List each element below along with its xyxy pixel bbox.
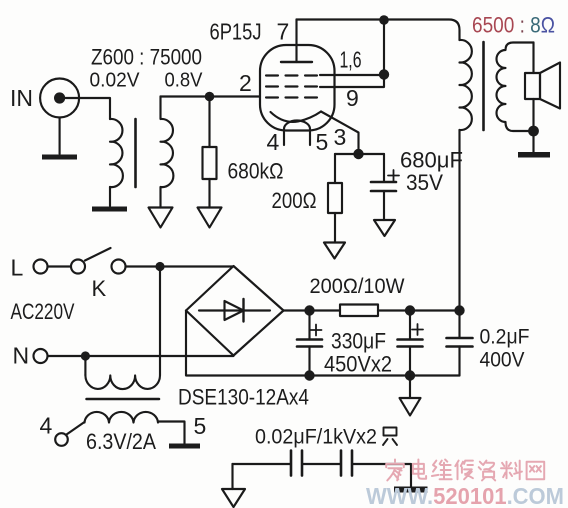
terminal L — [34, 260, 48, 274]
svg-text:AC220V: AC220V — [11, 299, 75, 324]
capacitor C1 680uF plates — [371, 182, 396, 191]
svg-text:680μF: 680μF — [400, 148, 463, 173]
resistor R2 200 body — [328, 183, 342, 213]
wire R2 to ground — [334, 213, 336, 243]
svg-text:5: 5 — [316, 129, 329, 155]
wire pin 9 to junction — [320, 79, 384, 87]
wire C3 to ground rail — [409, 347, 411, 376]
svg-text:0.8V: 0.8V — [165, 70, 204, 92]
bridge diode triangle — [225, 301, 244, 320]
svg-text:6500 : 8Ω: 6500 : 8Ω — [472, 13, 555, 38]
svg-text:WWW.520101.COM: WWW.520101.COM — [366, 483, 564, 508]
wire switch to bridge top — [126, 265, 234, 267]
svg-text:K: K — [92, 276, 107, 301]
tube cathode arc — [271, 112, 322, 122]
svg-text:4: 4 — [267, 129, 280, 155]
terminal N — [34, 349, 48, 363]
wire R1 to ground — [208, 179, 210, 208]
svg-text:7: 7 — [277, 19, 290, 45]
watermark char wei — [432, 460, 452, 480]
node plus rail 3 — [454, 305, 464, 315]
tube plate bar — [281, 61, 312, 63]
ground triangle main — [400, 398, 421, 416]
capacitor C4 0.2uF plates — [447, 338, 473, 347]
heater transformer T3 primary winding — [85, 375, 160, 389]
wire bridge negative to ground rail — [186, 311, 460, 376]
watermark char dian — [413, 460, 426, 479]
svg-text:6.3V/2A: 6.3V/2A — [86, 429, 156, 454]
ground bar under T1 primary — [92, 207, 127, 212]
wire to capacitor C3 — [409, 311, 411, 340]
label zhi glyph — [383, 428, 397, 446]
wire secondary to grid node — [161, 95, 261, 97]
C3 plus sign — [412, 324, 423, 335]
wire speaker to ground — [532, 99, 534, 152]
svg-text:35V: 35V — [406, 170, 443, 195]
svg-text:200Ω: 200Ω — [272, 188, 317, 213]
wire jack sleeve to ground — [59, 118, 61, 155]
svg-text:0.2μF: 0.2μF — [480, 326, 530, 349]
svg-text:450Vx2: 450Vx2 — [324, 352, 392, 377]
wire N junction to heater primary — [84, 356, 86, 375]
node L junction — [155, 262, 164, 271]
wire L junction down to heater primary — [159, 267, 161, 376]
node speaker return junction — [528, 126, 539, 137]
node cathode junction — [353, 149, 363, 159]
node ground rail 1 — [304, 370, 314, 380]
input jack J1 — [40, 79, 79, 118]
wire C4 to ground rail — [458, 347, 460, 376]
capacitor C2 330uF plates — [297, 340, 322, 347]
tube plate lead pin 7 — [295, 20, 297, 63]
ground bar under jack — [42, 155, 77, 160]
terminal 4 — [55, 433, 68, 446]
wire T2 secondary to speaker — [532, 43, 534, 74]
wire secondary to terminal 4 — [67, 422, 85, 435]
watermark char jia — [386, 460, 404, 481]
tube control grid pin 2 dashes — [266, 96, 320, 98]
wire plate to B+ top rail — [297, 20, 460, 41]
watermark char zi — [479, 461, 496, 481]
svg-text:IN: IN — [10, 85, 33, 111]
C2 plus sign — [311, 325, 322, 336]
watermark line 1 drawn glyphs — [386, 460, 544, 481]
output transformer T2 primary winding — [460, 40, 472, 130]
ground bar pin 5 — [169, 444, 200, 449]
wire line filter left to ground triangle — [231, 464, 233, 489]
transformer T1 core — [134, 119, 137, 187]
svg-text:0.02μF/1kVx2: 0.02μF/1kVx2 — [255, 426, 377, 449]
svg-text:L: L — [11, 255, 24, 281]
svg-text:1,6: 1,6 — [340, 47, 362, 73]
wire node K to R2 and C1 — [335, 153, 384, 155]
svg-text:400V: 400V — [480, 349, 525, 372]
ground bar line filter right — [394, 487, 428, 493]
ground triangle under C1 — [374, 220, 395, 236]
svg-text:5: 5 — [194, 413, 207, 439]
node top B+ junction — [379, 15, 389, 25]
tube heater arch pins 4 5 — [284, 121, 310, 146]
wire C1 to ground — [383, 191, 385, 220]
capacitor C3 330uF plates — [398, 340, 423, 347]
capacitor C5 0.02uF plates — [291, 451, 302, 476]
switch K arm — [85, 248, 111, 261]
node N junction — [81, 351, 90, 360]
tube grid row pins 1,6 dashes — [266, 74, 320, 76]
wire C6 to ground bar — [352, 464, 411, 487]
wire C5 to C6 — [302, 463, 341, 465]
transformer T3 secondary 6.3V winding — [85, 412, 185, 444]
wire to resistor R2 — [334, 154, 336, 183]
transformer T3 core — [87, 398, 160, 401]
wire screen junction vertical — [383, 20, 385, 75]
resistor R3 200/10W body — [340, 305, 378, 317]
svg-text:2: 2 — [239, 70, 252, 96]
svg-text:200Ω/10W: 200Ω/10W — [310, 275, 405, 298]
transformer T1 primary winding — [110, 119, 123, 187]
node plus rail 2 — [405, 305, 415, 315]
speaker SP cone — [540, 63, 560, 109]
transformer T1 secondary winding — [161, 97, 174, 208]
input jack center pin — [54, 92, 65, 103]
bridge diode cathode bar — [242, 299, 244, 322]
svg-text:680kΩ: 680kΩ — [228, 159, 284, 184]
transformer T2 core — [482, 42, 485, 130]
wire jack to transformer primary — [65, 98, 110, 119]
switch K contact left — [71, 260, 85, 274]
tube V1 envelope — [260, 45, 335, 131]
wire to capacitor C4 — [458, 311, 460, 339]
watermark char wang — [527, 462, 545, 480]
transformer T2 secondary winding — [496, 43, 533, 132]
tube grid row pin 9 dashes — [266, 85, 320, 87]
wire to capacitor C2 — [308, 311, 310, 340]
capacitor C6 0.02uF plates — [341, 451, 352, 476]
watermark char xiu — [455, 461, 473, 480]
wire to capacitor C5 — [233, 463, 292, 465]
wire T2 primary to B+ rail — [458, 130, 460, 311]
wire node to resistor R1 — [208, 97, 210, 148]
svg-text:6P15J: 6P15J — [210, 19, 262, 45]
ground triangle under T1 secondary — [149, 208, 173, 228]
ground triangle under R1 — [198, 208, 222, 228]
wire node K to capacitor C1 — [383, 154, 385, 182]
C1 plus sign — [388, 170, 399, 181]
wire C2 to ground rail — [308, 347, 310, 376]
wire primary to ground — [109, 187, 111, 206]
wire pins 1,6 to junction — [320, 74, 384, 76]
bridge rectifier D1 diamond — [186, 266, 284, 356]
ground triangle line filter — [222, 489, 245, 507]
svg-text:DSE130-12Ax4: DSE130-12Ax4 — [178, 385, 309, 410]
node screen junction — [379, 69, 389, 79]
wire L to switch — [48, 265, 72, 267]
watermark char liao — [501, 461, 522, 480]
svg-text:4: 4 — [40, 413, 53, 439]
resistor R1 680k body — [203, 147, 217, 179]
svg-text:9: 9 — [346, 85, 359, 111]
svg-text:0.02V: 0.02V — [90, 70, 141, 92]
svg-text:330μF: 330μF — [331, 329, 386, 354]
svg-text:3: 3 — [334, 124, 347, 150]
svg-text:Z600 : 75000: Z600 : 75000 — [91, 45, 202, 70]
wire ground rail to triangle — [409, 376, 411, 399]
wire N to bridge bottom — [48, 354, 234, 357]
bridge diode symbol line — [199, 309, 270, 311]
svg-text:N: N — [13, 343, 30, 369]
node ground rail 2 — [405, 370, 415, 380]
wire R3 to B+ — [378, 309, 460, 311]
ground bar under speaker — [518, 152, 550, 158]
wire cathode to node K — [321, 112, 359, 155]
node plus rail 1 — [304, 305, 314, 315]
speaker SP body — [525, 73, 540, 99]
switch K contact right — [112, 260, 126, 274]
ground triangle under R2 — [324, 243, 345, 259]
wire bridge positive to B+ rail — [284, 309, 341, 311]
node grid junction — [205, 92, 215, 102]
